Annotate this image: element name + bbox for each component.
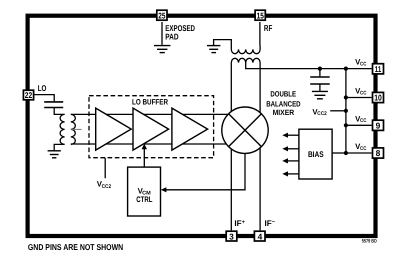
BIAS output arrow 3 [282,158,299,163]
svg-text:IF: IF [265,219,272,228]
wire bus to pin 9 [346,124,372,126]
svg-text:BALANCED: BALANCED [266,99,301,108]
svg-text:+: + [242,219,245,225]
amplifier A1 [96,108,132,150]
wire decoupling cap bottom lead to ground [319,85,321,92]
svg-text:8: 8 [376,148,381,158]
svg-text:DOUBLE: DOUBLE [270,90,296,99]
svg-text:CC2: CC2 [317,111,327,117]
wire mixer tap to VCM CTRL [165,152,246,190]
junction dot pin 9 rail [344,123,348,127]
svg-text:CTRL: CTRL [136,195,152,204]
pin 11 [373,64,384,74]
svg-text:MIXER: MIXER [273,108,295,117]
wire decoupling cap top lead [319,69,321,77]
svg-text:25: 25 [158,10,165,20]
ground (exposed pad) [154,46,170,53]
LO secondary center tap stub [71,128,82,130]
svg-text:−: − [272,219,275,225]
BIAS output arrow 2 [282,146,299,151]
amplifier A3 [172,108,208,150]
wire LO cap to primary coil [54,108,64,114]
svg-text:CC2: CC2 [102,184,112,190]
svg-text:BIAS: BIAS [308,150,324,159]
wire pin25 to ground [161,22,163,45]
svg-text:RF: RF [264,23,272,33]
junction dot pin 10 rail [344,95,348,99]
pin 22 [23,90,33,100]
junction dot at decoupling cap [318,67,322,71]
pin 4 [254,231,265,241]
arrowhead into VCM CTRL [161,187,167,192]
transformer T2 RF secondary coil [231,58,260,62]
svg-text:22: 22 [25,90,33,100]
BIAS box [299,129,332,179]
amplifier A2 [133,108,169,150]
wire VCC bus vertical [345,69,347,153]
BIAS output arrow 1 [282,133,299,138]
wire bus to pin 10 [346,97,372,99]
mixer X [229,114,262,147]
wire bus to pin 11 [346,68,372,70]
svg-text:CC: CC [360,61,367,67]
pin 15 [255,10,265,20]
LO buffer dashed box [89,96,214,158]
svg-text:3: 3 [229,231,234,241]
svg-text:11: 11 [375,64,382,74]
pin 10 [373,92,384,102]
arrowhead VCM up [142,144,147,150]
wire VCC2 stub under dashed box [104,158,106,179]
transformer T2 RF primary coil [231,45,260,54]
wire bus to pin 8 [346,152,372,154]
svg-text:9: 9 [376,121,381,131]
mixer core circle [222,107,268,153]
junction dot pin 11 rail [344,67,348,71]
svg-text:4: 4 [258,231,263,241]
pin 9 [373,120,384,130]
ground (LO transformer) [48,151,61,158]
svg-text:CC: CC [360,146,367,152]
svg-text:GND PINS ARE NOT SHOWN: GND PINS ARE NOT SHOWN [28,242,123,252]
wire VCC2 label to bus [330,110,346,112]
wire LO pin22 to capacitor [35,95,55,102]
junction dot pin 8 rail [344,151,348,155]
wire LO secondary top line to mixer [71,113,244,115]
wire LO primary bottom to ground [54,144,64,150]
wire VCM CTRL up arrow line [143,148,145,167]
pin 25 [157,10,167,20]
ground (RF transformer) [207,46,220,53]
BIAS output arrow 4 [282,171,299,176]
svg-text:15: 15 [257,10,264,20]
ground (VCC cap) [312,91,328,98]
svg-text:5579 BD: 5579 BD [362,238,377,244]
wire RF secondary right down to pin 4 [259,63,261,231]
wire LO secondary bottom line to mixer [71,143,244,145]
wire pin15 down to RF transformer [259,22,261,46]
transformer T1 LO primary coil [60,114,65,144]
capacitor C VCC decoupling [310,77,330,84]
pin 3 [226,231,237,241]
capacitor C LO input [44,102,63,108]
pin 8 [373,148,384,158]
svg-text:LO BUFFER: LO BUFFER [132,97,168,106]
wire RF center tap to VCC rail [246,63,346,69]
wire BIAS to bus [332,152,346,154]
svg-text:CC: CC [360,118,367,124]
IC outline [28,16,376,236]
junction dot VCC2 tap [344,109,348,113]
svg-text:CC: CC [360,90,367,96]
wire RF primary left to ground [214,40,232,46]
svg-text:PAD: PAD [165,32,178,42]
VCM CTRL box U1 [128,167,161,216]
svg-text:LO: LO [38,83,47,93]
svg-text:10: 10 [374,93,382,103]
svg-text:IF: IF [234,219,241,228]
wire RF secondary left down to pin 3 [230,63,232,231]
transformer T1 LO secondary coil [71,114,76,144]
